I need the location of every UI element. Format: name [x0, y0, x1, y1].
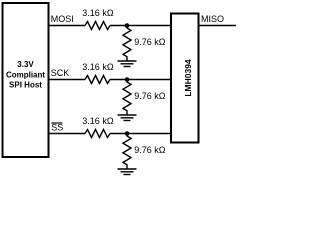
node SCK termination junction [125, 77, 130, 82]
resistor R1 3.16 kOhm series MOSI [85, 22, 110, 30]
svg-text:SPI Host: SPI Host [9, 81, 42, 90]
ground SCK termination [118, 115, 137, 121]
wire SCK host to R3 [48, 79, 86, 81]
resistor R4 9.76 kOhm shunt SCK [123, 80, 131, 116]
svg-text:3.16 kΩ: 3.16 kΩ [82, 62, 114, 72]
svg-text:LMH0394: LMH0394 [183, 59, 193, 97]
resistor R2 9.76 kOhm shunt MOSI [123, 26, 131, 62]
label SS (active low, overline) [51, 122, 63, 132]
wire SS R5 to LMH0394 [110, 133, 171, 135]
svg-text:3.16 kΩ: 3.16 kΩ [82, 8, 114, 18]
wire SCK R3 to LMH0394 [110, 79, 171, 81]
svg-text:9.76 kΩ: 9.76 kΩ [134, 37, 166, 47]
svg-text:9.76 kΩ: 9.76 kΩ [134, 145, 166, 155]
node MOSI termination junction [125, 23, 130, 28]
wire MISO from LMH0394 to edge [199, 25, 237, 27]
resistor R5 3.16 kOhm series SS [85, 130, 110, 138]
wire MOSI R1 to LMH0394 [110, 25, 171, 27]
resistor R6 9.76 kOhm shunt SS [123, 134, 131, 170]
resistor R3 3.16 kOhm series SCK [85, 76, 110, 84]
wire SS host to R5 [48, 133, 86, 135]
3.3V Compliant SPI Host block [3, 3, 49, 157]
wire MOSI host to R1 [48, 25, 86, 27]
LMH0394 device U1 [171, 14, 199, 143]
svg-text:MOSI: MOSI [51, 14, 74, 24]
ground MOSI termination [118, 61, 137, 67]
svg-text:SS: SS [51, 122, 63, 132]
svg-text:9.76 kΩ: 9.76 kΩ [134, 91, 166, 101]
svg-text:MISO: MISO [201, 14, 224, 24]
svg-text:SCK: SCK [51, 68, 70, 78]
node SS termination junction [125, 131, 130, 136]
svg-text:3.16 kΩ: 3.16 kΩ [82, 116, 114, 126]
svg-text:Compliant: Compliant [6, 70, 45, 79]
ground SS termination [118, 169, 137, 175]
svg-text:3.3V: 3.3V [17, 60, 34, 69]
